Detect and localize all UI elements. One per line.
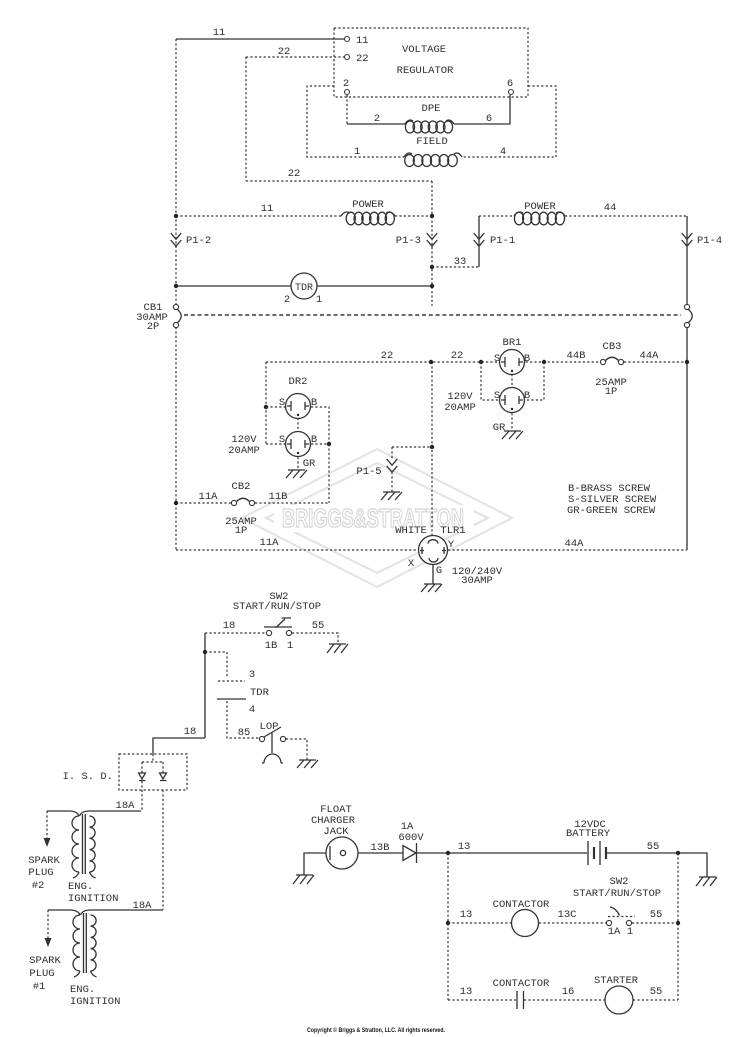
svg-text:22: 22 (278, 46, 291, 58)
BR1 ground wire (511, 374, 513, 431)
svg-text:2P: 2P (147, 321, 160, 333)
starter row (448, 999, 516, 1001)
TDR contact lower wire (227, 701, 260, 738)
node right rail 22 (685, 360, 689, 364)
svg-text:S: S (279, 434, 285, 446)
P1-5 ground (381, 492, 402, 500)
svg-text:P1-5: P1-5 (356, 466, 381, 478)
svg-text:SW2: SW2 (610, 876, 629, 888)
connector P1-1 (478, 216, 480, 267)
svg-text:START/RUN/STOP: START/RUN/STOP (573, 888, 661, 900)
connector P1-5 (392, 447, 432, 459)
svg-text:1B: 1B (265, 640, 278, 652)
svg-text:13: 13 (460, 909, 473, 921)
svg-text:P1-1: P1-1 (490, 235, 515, 247)
svg-text:4: 4 (249, 704, 255, 716)
TDR contact branch (205, 652, 227, 678)
TLR1 ground wire (432, 565, 434, 585)
svg-text:DPE: DPE (422, 103, 441, 115)
svg-text:2: 2 (374, 113, 380, 125)
T1 core (83, 814, 86, 874)
svg-text:Y: Y (448, 539, 455, 551)
svg-text:11: 11 (213, 27, 226, 39)
node left power (174, 214, 178, 218)
svg-text:S: S (494, 353, 500, 365)
contactor coil K1 (512, 910, 539, 937)
svg-text:13: 13 (460, 986, 473, 998)
switch SW2 engine row (205, 632, 266, 634)
receptacle BR1 lower (481, 362, 499, 400)
svg-text:REGULATOR: REGULATOR (397, 65, 454, 77)
LOP ground (297, 760, 318, 768)
svg-text:18A: 18A (116, 800, 136, 812)
svg-text:JACK: JACK (323, 826, 349, 838)
svg-text:16: 16 (562, 986, 575, 998)
svg-text:1P: 1P (605, 386, 618, 398)
svg-text:Copyright © Briggs & Stratton,: Copyright © Briggs & Stratton, LLC. All … (307, 1027, 445, 1034)
contactor coil row (446, 921, 450, 925)
left rail vertical (175, 39, 177, 306)
svg-text:13C: 13C (558, 909, 577, 921)
svg-text:TLR1: TLR1 (440, 525, 465, 537)
svg-text:I. S. D.: I. S. D. (63, 771, 113, 783)
svg-text:1: 1 (316, 294, 322, 306)
wire pin2 to DPE (346, 95, 348, 124)
svg-text:POWER: POWER (352, 199, 384, 211)
svg-text:44: 44 (604, 202, 617, 214)
diode D2 (160, 773, 167, 781)
svg-text:#2: #2 (32, 880, 45, 892)
pin 22 of U1 (345, 55, 350, 60)
node br1 b (542, 360, 546, 364)
svg-text:18: 18 (223, 620, 236, 632)
switch SW2 battery contact (606, 920, 611, 925)
spark plug #1 lead (47, 910, 49, 938)
node p1-5 (430, 445, 434, 449)
svg-text:CONTACTOR: CONTACTOR (493, 899, 550, 911)
svg-text:22: 22 (288, 168, 301, 180)
wire 22 top (246, 56, 344, 58)
svg-text:22: 22 (451, 350, 464, 362)
svg-text:POWER: POWER (524, 201, 556, 213)
svg-text:11: 11 (356, 35, 369, 47)
svg-text:GR: GR (303, 458, 316, 470)
svg-text:BATTERY: BATTERY (566, 828, 611, 840)
bottom rail 11A (176, 549, 418, 551)
wire 22 corner to DR2 (265, 362, 267, 444)
wire 33 (432, 266, 479, 268)
svg-text:11A: 11A (260, 537, 280, 549)
right rail lower (686, 327, 688, 550)
connector P1-2 (171, 233, 182, 246)
svg-text:11: 11 (261, 203, 274, 215)
wire 11B drop (328, 444, 330, 503)
svg-text:1P: 1P (235, 525, 248, 537)
svg-text:55: 55 (650, 909, 663, 921)
node br1 s (479, 360, 483, 364)
svg-text:33: 33 (454, 256, 467, 268)
svg-text:22: 22 (356, 53, 369, 65)
svg-text:85: 85 (238, 727, 251, 739)
svg-text:TDR: TDR (295, 283, 313, 294)
battery ground (696, 877, 717, 886)
ISD internal wires (142, 754, 163, 773)
svg-text:PLUG: PLUG (29, 968, 54, 980)
svg-text:SPARK: SPARK (28, 855, 60, 867)
DR2 B wire (311, 407, 329, 444)
svg-text:55: 55 (312, 620, 325, 632)
svg-text:X: X (408, 558, 415, 570)
TDR relay coil row wire (176, 285, 432, 287)
node mid power (430, 214, 434, 218)
svg-text:PLUG: PLUG (28, 867, 53, 879)
svg-text:30AMP: 30AMP (461, 575, 493, 587)
svg-text:18: 18 (184, 726, 197, 738)
svg-text:WHITE: WHITE (395, 525, 427, 537)
svg-text:20AMP: 20AMP (444, 402, 476, 414)
svg-text:G: G (436, 565, 442, 577)
svg-text:BRIGGS&STRATTON: BRIGGS&STRATTON (282, 503, 464, 533)
breaker CB1 right pole (684, 304, 689, 309)
middle vertical top (431, 181, 433, 306)
TDR relay coil (291, 273, 317, 299)
jack ground wire (304, 853, 326, 875)
right rail vertical (686, 216, 688, 305)
svg-text:3: 3 (249, 669, 255, 681)
node dr2 s upper (264, 405, 268, 409)
svg-text:600V: 600V (398, 832, 424, 844)
svg-text:4: 4 (500, 146, 506, 158)
wire 11 top (176, 38, 344, 40)
T2 core (84, 913, 87, 973)
svg-text:START/RUN/STOP: START/RUN/STOP (233, 601, 321, 613)
left drop 13 (447, 853, 449, 1000)
voltage regulator U1 box (334, 28, 528, 97)
svg-text:ENG.: ENG. (70, 984, 95, 996)
spark plug #2 lead (46, 811, 48, 838)
node tdr right (430, 284, 434, 288)
svg-text:1: 1 (354, 146, 360, 158)
watermark briggs&stratton logo (242, 449, 512, 587)
svg-text:1A: 1A (608, 926, 621, 938)
svg-text:P1-2: P1-2 (186, 235, 211, 247)
svg-text:6: 6 (486, 113, 492, 125)
middle vertical to outlet (431, 362, 433, 536)
wire 22 vertical drop (245, 57, 247, 181)
receptacle DR2 lower (266, 443, 285, 445)
svg-text:44A: 44A (565, 538, 585, 550)
wire 18A second (162, 790, 164, 910)
jack ground (293, 875, 314, 884)
pin 11 of U1 (345, 37, 350, 42)
svg-text:TDR: TDR (250, 687, 270, 699)
svg-text:S: S (494, 390, 500, 402)
BR1 ground (502, 431, 523, 439)
DR2 ground (286, 470, 307, 478)
contactor contact (517, 991, 524, 1009)
svg-text:55: 55 (647, 841, 660, 853)
svg-text:DR2: DR2 (289, 376, 308, 388)
svg-text:IGNITION: IGNITION (68, 893, 118, 905)
ignition coil T1 (80, 811, 90, 816)
svg-text:ENG.: ENG. (68, 881, 93, 893)
DR2 ground wire (297, 418, 299, 470)
svg-text:6: 6 (507, 78, 513, 90)
svg-text:P1-4: P1-4 (697, 235, 722, 247)
svg-text:BR1: BR1 (503, 337, 522, 349)
bottom rail 44A (448, 549, 687, 551)
wire 18A first (141, 781, 143, 811)
diode D1 (139, 773, 146, 781)
SW2 ground (327, 644, 348, 653)
connector P1-4 (682, 233, 693, 246)
svg-text:GR-GREEN SCREW: GR-GREEN SCREW (567, 505, 656, 517)
ignition coil T2 (81, 910, 91, 915)
wire 22 row (246, 180, 432, 182)
TLR1 ground (421, 584, 442, 592)
node tdr left (174, 284, 178, 288)
wire 13 (417, 852, 587, 854)
svg-text:GR: GR (493, 422, 506, 434)
FIELD loop wires (307, 86, 404, 157)
wire 22 receptacle row (266, 361, 600, 363)
breaker tie line (184, 314, 681, 316)
svg-text:LOP: LOP (260, 721, 279, 733)
TDR contact plates (218, 680, 245, 682)
svg-text:FIELD: FIELD (416, 136, 448, 148)
wire 18 vertical (204, 633, 206, 738)
svg-text:22: 22 (381, 350, 394, 362)
node 18 branch (203, 650, 207, 654)
svg-text:VOLTAGE: VOLTAGE (402, 44, 446, 56)
svg-text:CB3: CB3 (603, 341, 622, 353)
svg-text:1: 1 (627, 926, 633, 938)
svg-text:44B: 44B (567, 350, 586, 362)
svg-text:2: 2 (284, 294, 290, 306)
svg-text:IGNITION: IGNITION (70, 996, 120, 1008)
node 33 (430, 265, 434, 269)
right drop 55 (677, 853, 679, 1000)
svg-text:55: 55 (650, 986, 663, 998)
node mid 22 (429, 360, 433, 364)
svg-text:13B: 13B (371, 842, 390, 854)
svg-text:2: 2 (343, 78, 349, 90)
connector P1-3 (427, 233, 438, 246)
svg-text:44A: 44A (640, 350, 660, 362)
svg-text:1: 1 (287, 640, 293, 652)
svg-text:S: S (279, 397, 285, 409)
node dr2 b (327, 442, 331, 446)
svg-text:CONTACTOR: CONTACTOR (493, 978, 550, 990)
svg-text:SPARK: SPARK (29, 955, 61, 967)
left rail lower (175, 327, 177, 550)
svg-text:STARTER: STARTER (594, 975, 639, 987)
svg-text:13: 13 (458, 841, 471, 853)
svg-text:11A: 11A (199, 491, 219, 503)
float charger jack J1 (326, 837, 358, 869)
breaker CB2 (176, 502, 329, 504)
svg-text:B: B (524, 353, 530, 365)
wire 55 (606, 853, 707, 877)
svg-text:#1: #1 (33, 981, 46, 993)
svg-text:P1-3: P1-3 (396, 235, 421, 247)
svg-text:B: B (524, 390, 530, 402)
svg-text:CB2: CB2 (232, 481, 251, 493)
svg-text:20AMP: 20AMP (228, 445, 260, 457)
svg-text:11B: 11B (269, 491, 288, 503)
node cb2 left (174, 501, 178, 505)
